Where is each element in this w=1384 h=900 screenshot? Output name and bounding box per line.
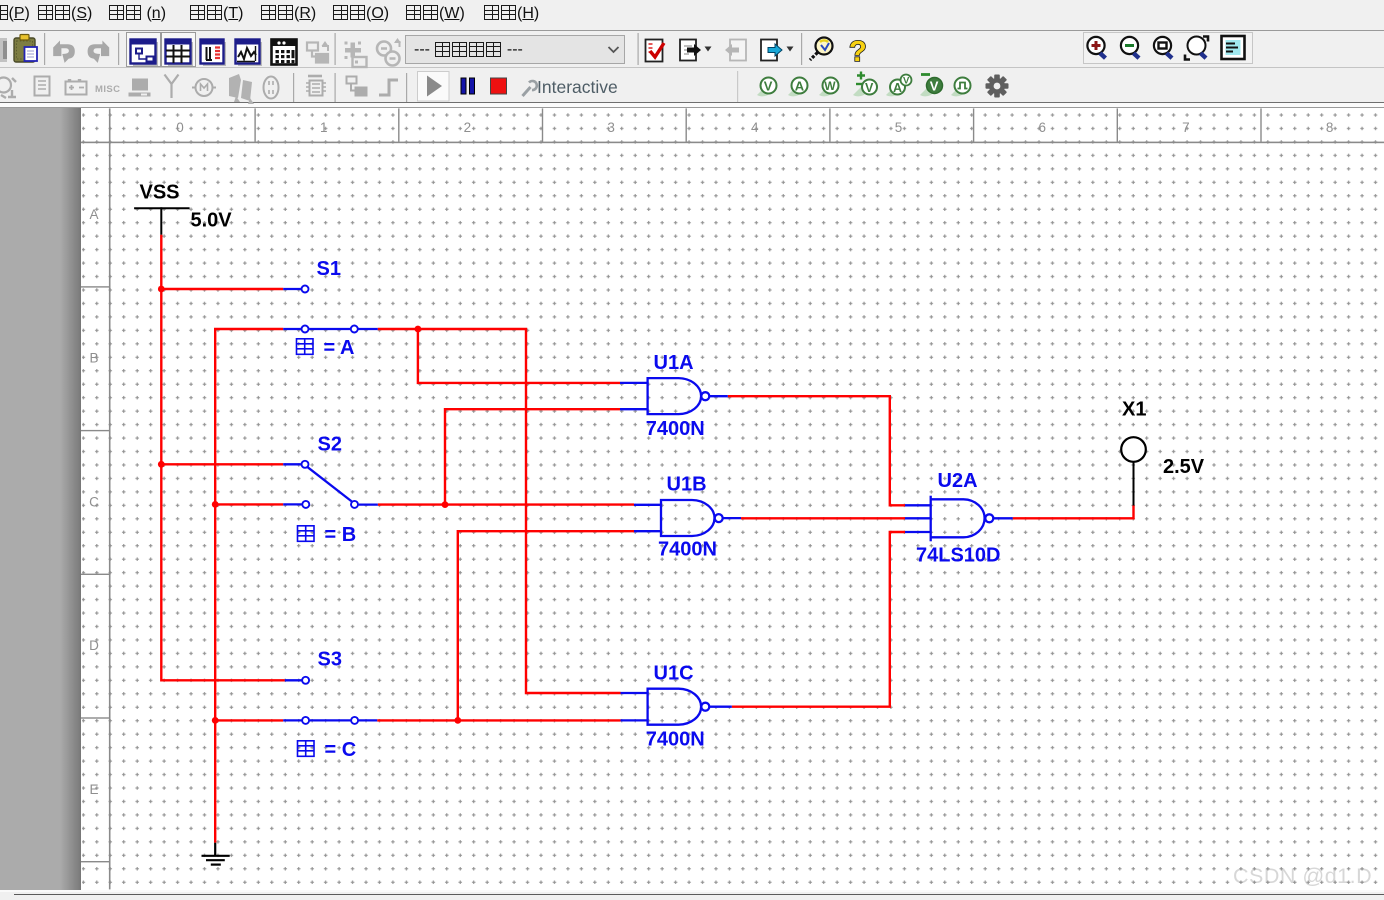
svg-text:V: V bbox=[930, 79, 939, 94]
wire S1 top row bbox=[161, 288, 283, 290]
probe W bbox=[819, 78, 839, 97]
wire junction to U1A input1 bbox=[418, 329, 620, 383]
probe A bbox=[788, 78, 808, 97]
junction S2 output / U1A in2 bbox=[442, 501, 449, 508]
power VSS bbox=[134, 207, 190, 235]
step wire icon bbox=[379, 80, 398, 95]
probe X1 stem bbox=[1133, 462, 1135, 506]
zoom out icon bbox=[1121, 37, 1141, 60]
svg-text:U1A: U1A bbox=[654, 352, 694, 374]
wire U1A output to U2A input1 bbox=[728, 396, 905, 505]
gear icon bbox=[986, 75, 1009, 98]
ruler labels bbox=[89, 120, 1333, 797]
svg-text:D: D bbox=[89, 638, 99, 653]
svg-text:= A: = A bbox=[324, 337, 355, 359]
switch S2 bbox=[283, 464, 378, 504]
junction S3 output / U1B in2 bbox=[454, 717, 461, 724]
svg-text:5.0V: 5.0V bbox=[191, 210, 233, 232]
opto icon bbox=[264, 77, 279, 99]
label key=A bbox=[297, 339, 314, 355]
svg-text:3: 3 bbox=[607, 120, 615, 135]
wire U1B output to U2A input2 bbox=[741, 517, 905, 519]
wire S2 bottom-left bbox=[215, 503, 283, 505]
wire U2A output to probe bbox=[1013, 506, 1134, 519]
nand gate U1A bbox=[620, 378, 728, 414]
svg-text:V: V bbox=[764, 79, 773, 94]
play button bbox=[418, 72, 450, 102]
svg-text:S3: S3 bbox=[318, 649, 342, 671]
junction ground rail / S3 row bbox=[212, 717, 219, 724]
svg-text:1: 1 bbox=[320, 120, 328, 135]
wire S1 bottom row + ground rail bbox=[215, 329, 283, 843]
grapher icon bbox=[236, 40, 263, 67]
menu bar bbox=[0, 0, 1384, 30]
probe -V filled bbox=[920, 75, 943, 97]
ruler main lines bbox=[109, 108, 111, 889]
wire U1B input2 down to S3 row bbox=[458, 531, 634, 720]
svg-text:74LS10D: 74LS10D bbox=[916, 545, 1001, 567]
motor icon bbox=[192, 79, 216, 96]
stop button bbox=[491, 78, 507, 94]
redo arrow bbox=[88, 41, 110, 63]
forward-annotate icon bbox=[761, 40, 794, 61]
bottom scrollbar band bbox=[0, 890, 1384, 900]
svg-text:0: 0 bbox=[176, 120, 184, 135]
nand gate U1B bbox=[634, 500, 741, 536]
postprocessor icon bbox=[272, 40, 297, 65]
mcu icon bbox=[306, 76, 326, 96]
transformer blob icon bbox=[229, 74, 254, 104]
wrench bbox=[523, 81, 537, 96]
junction ground rail / S2 row bbox=[212, 501, 219, 508]
probe X1 circle bbox=[1121, 437, 1146, 462]
wire S2 common to U1B input1 bbox=[378, 503, 634, 505]
svg-text:A: A bbox=[89, 207, 98, 222]
probe A/V bbox=[886, 75, 912, 97]
spreadsheet icon bbox=[166, 40, 194, 67]
svg-text:E: E bbox=[89, 782, 98, 797]
pause button bbox=[461, 78, 475, 94]
svg-text:5: 5 bbox=[895, 120, 903, 135]
svg-text:7400N: 7400N bbox=[646, 729, 705, 751]
switch S3 bbox=[283, 680, 377, 720]
svg-text:= C: = C bbox=[325, 739, 357, 761]
probe pulse bbox=[951, 78, 971, 97]
switch S1 bbox=[283, 289, 378, 329]
paste icon bbox=[14, 35, 37, 63]
svg-text:V: V bbox=[903, 76, 910, 87]
hierarchy grayed icon bbox=[307, 41, 329, 63]
left gray strip bbox=[0, 108, 81, 889]
column ticks bbox=[81, 108, 1262, 862]
zoom area icon bbox=[1154, 37, 1174, 60]
svg-text:2.5V: 2.5V bbox=[1163, 456, 1205, 478]
dropdown bbox=[405, 35, 625, 64]
svg-text:VSS: VSS bbox=[140, 182, 180, 204]
svg-text:S2: S2 bbox=[318, 434, 342, 456]
svg-text:A: A bbox=[795, 79, 805, 94]
nand gate U2A (3-input) bbox=[905, 496, 1013, 542]
probe +V bbox=[853, 72, 877, 97]
laptop icon bbox=[129, 79, 151, 97]
fullscreen icon bbox=[1222, 36, 1245, 59]
dropdown chevron bbox=[609, 47, 619, 52]
wire U1A input2 from S2 junction bbox=[445, 409, 620, 504]
wire S1 common to vertical x526 bbox=[378, 329, 621, 693]
svg-text:S1: S1 bbox=[317, 258, 341, 280]
find magnifier icon bbox=[810, 38, 833, 61]
svg-text:Interactive: Interactive bbox=[537, 77, 618, 97]
svg-text:?: ? bbox=[849, 36, 867, 68]
zoom in icon bbox=[1087, 37, 1107, 60]
database icon bbox=[201, 40, 227, 67]
svg-text:7: 7 bbox=[1182, 120, 1190, 135]
junction VSS rail / S1 row bbox=[158, 286, 165, 293]
wire S3 common to U1C input2 bbox=[377, 719, 620, 721]
svg-text:4: 4 bbox=[751, 120, 759, 135]
junction VSS rail / S2 row bbox=[158, 461, 165, 468]
gray label icon bbox=[345, 42, 367, 68]
window top border above canvas bbox=[0, 102, 1384, 104]
undo arrow bbox=[53, 41, 75, 63]
design toolbox icon bbox=[131, 40, 159, 67]
junction S1 output row bbox=[415, 326, 422, 333]
wire VSS rail down to S3 bbox=[161, 235, 284, 681]
svg-text:= B: = B bbox=[325, 524, 357, 546]
partial icon left edge bbox=[0, 38, 7, 62]
svg-text:2: 2 bbox=[464, 120, 472, 135]
hierarchy small icon bbox=[347, 77, 367, 96]
label key=B bbox=[298, 526, 315, 542]
nand gate U1C bbox=[621, 689, 732, 725]
probe V bbox=[757, 78, 777, 97]
zoom toolbar frame bbox=[1084, 33, 1253, 64]
svg-text:MISC: MISC bbox=[95, 84, 120, 95]
chip icon bbox=[35, 77, 50, 96]
svg-text:U2A: U2A bbox=[938, 470, 978, 492]
svg-text:V: V bbox=[865, 81, 874, 95]
wire S3 bottom row bbox=[215, 719, 283, 721]
ERC check icon bbox=[646, 40, 665, 62]
ground bbox=[202, 843, 230, 865]
svg-text:U1C: U1C bbox=[654, 663, 694, 685]
battery icon bbox=[66, 79, 87, 95]
svg-text:C: C bbox=[89, 494, 99, 509]
svg-text:X1: X1 bbox=[1122, 399, 1146, 421]
svg-text:8: 8 bbox=[1326, 120, 1334, 135]
svg-text:W: W bbox=[824, 79, 836, 93]
antenna icon bbox=[165, 75, 179, 99]
export netlist icon bbox=[680, 40, 712, 61]
zoom fit icon bbox=[1185, 37, 1208, 60]
wire U1C output to U2A input3 bbox=[732, 532, 905, 707]
label key=C bbox=[298, 741, 315, 757]
svg-text:U1B: U1B bbox=[667, 474, 707, 496]
wire S2 top row bbox=[161, 463, 283, 465]
svg-text:7400N: 7400N bbox=[646, 418, 705, 440]
partial comp icon bbox=[0, 78, 16, 99]
gray transform icon bbox=[377, 38, 401, 66]
back-annotate grayed icon bbox=[725, 40, 746, 61]
svg-text:7400N: 7400N bbox=[658, 539, 717, 561]
menu/toolbar separator bbox=[0, 30, 1384, 31]
toolbar rows background is app bg; row separator bbox=[0, 67, 1384, 68]
pressed button frames bbox=[127, 33, 196, 67]
svg-text:B: B bbox=[89, 351, 98, 366]
svg-text:6: 6 bbox=[1038, 120, 1046, 135]
watermark bbox=[1233, 864, 1384, 889]
